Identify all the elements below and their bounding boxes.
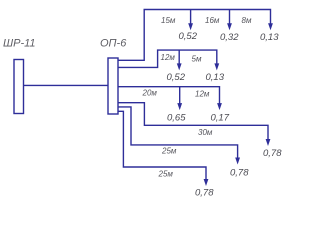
- svg-text:0,13: 0,13: [260, 32, 279, 43]
- wire group5 feeder 25m: [118, 107, 238, 161]
- svg-text:20м: 20м: [142, 89, 158, 98]
- svg-text:25м: 25м: [158, 170, 174, 179]
- arrowhead 1.2: [227, 23, 232, 30]
- svg-text:0,78: 0,78: [230, 168, 249, 179]
- arrowhead 1.1: [188, 23, 193, 30]
- arrowhead 2.1: [177, 63, 182, 70]
- wire ШР-11 to ОП-6: [24, 84, 109, 86]
- svg-text:5м: 5м: [192, 55, 202, 64]
- svg-text:30м: 30м: [198, 128, 213, 137]
- svg-text:12м: 12м: [195, 90, 210, 99]
- wire group2 feeder: [118, 50, 217, 67]
- svg-text:0,65: 0,65: [167, 113, 186, 124]
- arrowhead 6: [204, 179, 209, 186]
- arrowhead 5: [235, 158, 240, 165]
- svg-text:16м: 16м: [205, 16, 220, 25]
- svg-text:15м: 15м: [161, 16, 176, 25]
- svg-text:25м: 25м: [161, 147, 177, 156]
- svg-text:0,13: 0,13: [206, 72, 225, 83]
- wire group1 feeder: [118, 10, 271, 61]
- arrowhead 3.2: [217, 103, 222, 110]
- wire group4 feeder 30m: [118, 103, 268, 143]
- svg-text:0,52: 0,52: [179, 31, 198, 42]
- wire branch arrow 1.2: [229, 10, 231, 27]
- cabinet ШР-11: [14, 60, 24, 114]
- panel ОП-6: [108, 58, 118, 114]
- wire group6 feeder 25m: [118, 111, 206, 182]
- svg-text:12м: 12м: [161, 53, 176, 62]
- svg-text:0,52: 0,52: [167, 72, 186, 83]
- wire branch arrow 2.1: [178, 50, 180, 67]
- arrowhead 2.2: [214, 63, 219, 70]
- svg-text:0,78: 0,78: [195, 188, 214, 199]
- svg-text:0,78: 0,78: [263, 148, 282, 159]
- arrowhead 1.3: [268, 23, 273, 30]
- svg-text:0,17: 0,17: [211, 113, 230, 124]
- svg-text:0,32: 0,32: [220, 32, 239, 43]
- wire branch arrow 1.1: [190, 10, 192, 27]
- svg-text:ШР-11: ШР-11: [3, 38, 36, 50]
- wire group3 feeder: [118, 87, 220, 107]
- svg-text:8м: 8м: [242, 16, 252, 25]
- wire branch arrow 3.1: [179, 87, 181, 107]
- svg-text:ОП-6: ОП-6: [100, 38, 127, 50]
- arrowhead 3.1: [177, 103, 182, 110]
- arrowhead 4: [266, 139, 271, 146]
